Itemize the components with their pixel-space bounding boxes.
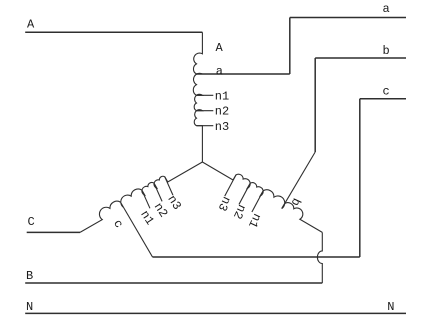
svg-text:A: A	[27, 18, 35, 32]
svg-text:n1: n1	[215, 89, 229, 103]
svg-text:b: b	[383, 44, 390, 58]
svg-text:n2: n2	[230, 202, 249, 221]
svg-text:N: N	[26, 300, 33, 314]
svg-text:a: a	[216, 65, 223, 79]
svg-text:n1: n1	[245, 211, 264, 230]
svg-text:B: B	[26, 269, 33, 283]
svg-text:c: c	[110, 217, 126, 231]
svg-text:A: A	[216, 41, 224, 55]
svg-text:C: C	[28, 215, 35, 229]
svg-text:n3: n3	[215, 120, 229, 134]
svg-text:n3: n3	[215, 194, 234, 213]
svg-text:n2: n2	[215, 105, 229, 119]
svg-text:b: b	[288, 196, 304, 208]
svg-text:N: N	[387, 300, 394, 314]
svg-text:a: a	[383, 2, 390, 16]
svg-text:c: c	[383, 85, 390, 99]
